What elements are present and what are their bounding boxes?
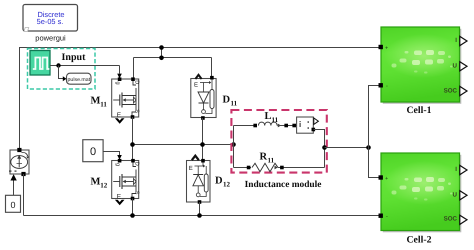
CM signal out arrow — [314, 118, 319, 124]
svg-text:I: I — [455, 166, 457, 173]
source signal arrow — [10, 174, 16, 180]
svg-text:M: M — [91, 177, 101, 188]
powergui block — [23, 5, 78, 32]
svg-text:R: R — [260, 152, 268, 163]
svg-text:M: M — [91, 96, 101, 107]
Cell-1 port squares — [379, 45, 383, 49]
M12 m-port arrow — [115, 200, 125, 205]
M12 port squares — [118, 159, 122, 163]
Cell-2 out ports — [460, 165, 467, 174]
wire to Cell-2 plus — [369, 148, 379, 178]
resistor current arrow — [275, 166, 278, 170]
D12 port squares — [201, 159, 205, 163]
wire M11 gate drop — [119, 66, 121, 74]
wire top bus — [20, 47, 379, 49]
mosfet M12 — [112, 161, 140, 201]
node bridge rail junction — [159, 56, 164, 61]
wire bridge top rail — [134, 57, 212, 59]
D11 label — [223, 95, 238, 108]
D12 m-port arrow — [192, 156, 199, 161]
wire to cells junction — [325, 147, 369, 149]
svg-text:11: 11 — [272, 116, 279, 124]
L11 label — [265, 111, 279, 124]
Cell-2 subsystem — [381, 153, 464, 232]
svg-text:pulse.mat: pulse.mat — [68, 77, 91, 83]
svg-text:U: U — [453, 63, 458, 70]
node top bus junction — [159, 45, 164, 50]
svg-text:g: g — [114, 163, 120, 166]
svg-text:S: S — [134, 109, 140, 113]
wire 0 to M12 gate — [103, 152, 119, 156]
D11 port squares — [210, 76, 214, 80]
wire D11 top drop — [211, 58, 213, 78]
svg-text:S: S — [134, 191, 140, 195]
svg-text:Input: Input — [62, 52, 87, 63]
R11 label — [260, 152, 275, 165]
constant 0 source block — [6, 195, 21, 212]
svg-text:L: L — [265, 111, 272, 122]
M11 m-port arrow — [115, 118, 125, 123]
wire to Cell-1 minus — [369, 86, 379, 148]
wire M11 drain drop — [133, 58, 135, 80]
diode D11 — [191, 79, 216, 118]
svg-text:11: 11 — [231, 100, 238, 108]
wire D12 to bus — [199, 202, 201, 216]
node bus M12 — [130, 213, 135, 218]
svg-text:+: + — [385, 176, 388, 182]
svg-text:powergui: powergui — [35, 33, 66, 42]
svg-text:12: 12 — [223, 181, 231, 189]
svg-text:-: - — [386, 214, 388, 220]
Cell-2 port squares — [379, 175, 383, 179]
inductor current arrow — [278, 124, 281, 128]
M12 label — [91, 177, 108, 190]
current measurement block — [297, 117, 314, 133]
diode D12 — [187, 161, 211, 203]
svg-text:E: E — [194, 82, 198, 89]
Cell-1 out ports — [460, 36, 467, 45]
wire pulse output — [50, 65, 120, 67]
svg-text:U: U — [453, 192, 458, 199]
inductance module dashed box — [231, 110, 326, 173]
wire M11S-M12D — [132, 117, 134, 161]
svg-text:Cell-1: Cell-1 — [406, 105, 431, 116]
pulse generator — [30, 51, 50, 76]
svg-text:E: E — [117, 112, 122, 119]
resistor R11 — [252, 163, 278, 171]
node bus D12 — [197, 213, 202, 218]
Input dashed region — [28, 49, 96, 90]
M11 port squares — [118, 77, 122, 81]
svg-text:I: I — [455, 37, 457, 44]
Cell-1 subsystem — [381, 27, 464, 104]
L branch port squares — [253, 124, 257, 128]
svg-text:0: 0 — [90, 146, 96, 158]
wire resistor branch — [234, 167, 252, 169]
inductor L11 — [259, 122, 278, 125]
wire left bus vertical — [19, 47, 21, 150]
wire mid rail — [133, 144, 234, 146]
svg-text:SOC: SOC — [444, 88, 458, 95]
CM out port — [312, 128, 316, 132]
svg-text:D: D — [215, 176, 223, 187]
node output junction — [322, 145, 327, 150]
wire M12 source to bus — [132, 199, 134, 216]
svg-text:g: g — [114, 82, 120, 85]
node rail M — [130, 142, 135, 147]
constant 0 gate block — [83, 140, 103, 162]
svg-text:12: 12 — [100, 182, 108, 190]
mosfet M11 — [112, 79, 140, 119]
svg-text:11: 11 — [268, 156, 275, 164]
svg-text:0: 0 — [10, 200, 15, 210]
svg-text:E: E — [117, 193, 122, 200]
wire to pulse.mat — [59, 66, 63, 79]
R branch port squares — [247, 166, 251, 170]
pulse.mat block — [67, 73, 92, 84]
wire 0 to source — [13, 180, 15, 195]
node rail D — [200, 142, 205, 147]
wire resistor to right vertical — [278, 167, 325, 169]
wire D11-D12 — [202, 118, 204, 161]
wire inductor branch — [234, 125, 257, 127]
wire source to bus — [23, 174, 25, 216]
wire bus-to-bridge link — [161, 47, 163, 58]
wire module left vertical — [233, 126, 235, 168]
svg-text:11: 11 — [100, 101, 107, 109]
node rail module — [231, 142, 236, 147]
M11 label — [91, 96, 108, 109]
svg-text:E: E — [189, 165, 193, 172]
D12 label — [215, 176, 231, 189]
svg-text:+: + — [385, 46, 388, 52]
svg-text:SOC: SOC — [444, 216, 458, 223]
node cells junction — [366, 145, 371, 150]
source port squares — [17, 148, 21, 152]
svg-text:-: - — [386, 84, 388, 90]
node pulse branch — [56, 63, 60, 67]
wire inductor to CM — [278, 125, 297, 127]
svg-text:Cell-2: Cell-2 — [406, 235, 431, 246]
current source block — [9, 150, 29, 174]
D11 m-port arrow — [195, 75, 201, 79]
svg-text:5e-05 s.: 5e-05 s. — [37, 17, 64, 26]
wire CM to right vertical — [313, 130, 324, 168]
wire bottom bus — [24, 215, 379, 217]
svg-text:Inductance module: Inductance module — [245, 180, 322, 190]
svg-text:D: D — [223, 95, 231, 106]
